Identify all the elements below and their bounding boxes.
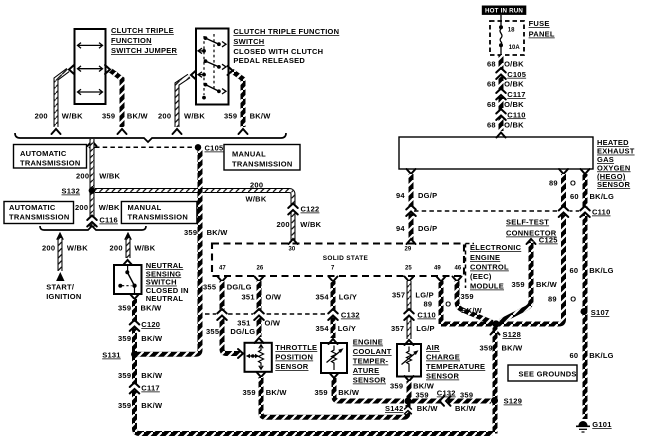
svg-text:W/BK: W/BK xyxy=(184,112,205,121)
svg-text:W/BK: W/BK xyxy=(99,203,120,212)
svg-text:CLUTCH TRIPLE: CLUTCH TRIPLE xyxy=(111,26,174,35)
svg-text:IGNITION: IGNITION xyxy=(46,292,81,301)
engine coolant temperature sensor box xyxy=(321,343,347,373)
label 68 O/BK row2 xyxy=(487,80,524,89)
TPS potentiometer symbol xyxy=(246,345,264,369)
svg-text:359: 359 xyxy=(243,388,256,397)
svg-text:SENSOR: SENSOR xyxy=(597,180,631,189)
svg-text:NEUTRAL: NEUTRAL xyxy=(146,294,184,303)
label heated exhaust gas oxygen sensor xyxy=(597,138,635,189)
dashed link to C105 xyxy=(95,146,194,148)
label 359 BK/W below C120 xyxy=(118,334,163,343)
node C105 xyxy=(195,144,201,150)
connector ACT top xyxy=(405,340,414,345)
svg-text:359: 359 xyxy=(416,391,429,400)
svg-text:(EEC): (EEC) xyxy=(470,272,492,281)
svg-text:DG/LG: DG/LG xyxy=(230,327,255,336)
label engine coolant temperature sensor xyxy=(353,338,392,385)
svg-text:BK/LG: BK/LG xyxy=(589,351,614,360)
HEGO sensor box xyxy=(399,137,593,169)
dashed connector line C110 xyxy=(414,210,588,212)
svg-text:TRANSMISSION: TRANSMISSION xyxy=(20,159,81,168)
clutch triple function switch box xyxy=(196,29,229,105)
svg-text:FUSE: FUSE xyxy=(529,19,550,28)
svg-text:200: 200 xyxy=(277,220,290,229)
label 60 BK/LG lower xyxy=(570,351,614,360)
svg-text:START/: START/ xyxy=(46,283,75,292)
connector C132 on 354 wire xyxy=(327,309,339,320)
connector jumper right xyxy=(105,65,110,74)
svg-text:SWITCH: SWITCH xyxy=(233,37,264,46)
svg-text:200: 200 xyxy=(158,112,171,121)
svg-text:O/BK: O/BK xyxy=(504,80,524,89)
air charge temperature sensor box xyxy=(397,344,421,377)
svg-text:46: 46 xyxy=(455,266,462,272)
connector pin7 xyxy=(329,277,338,282)
label 200 W/BK wire1 xyxy=(35,112,84,121)
connector on 60 wire at C110 line xyxy=(579,206,591,217)
label throttle position sensor xyxy=(275,343,317,371)
svg-text:C125: C125 xyxy=(539,236,558,245)
label electronic engine control module xyxy=(470,243,522,291)
svg-text:60: 60 xyxy=(570,351,579,360)
label 200 W/BK on S132 run xyxy=(246,181,267,204)
wire LG/P 357 pin25 to ACT top xyxy=(407,281,412,339)
svg-text:355: 355 xyxy=(203,283,216,292)
svg-text:THROTTLE: THROTTLE xyxy=(275,343,317,352)
label 200 W/BK xyxy=(76,172,121,181)
connector C105 fuse xyxy=(495,68,507,79)
svg-text:359: 359 xyxy=(118,401,131,410)
label 351 O/W lower xyxy=(237,319,281,328)
see grounds box xyxy=(508,365,577,381)
wire BK/W 359 S128 down through S129 to bottom bus xyxy=(493,326,498,434)
arrow start wire xyxy=(56,232,64,240)
svg-text:BK/W: BK/W xyxy=(413,382,435,391)
svg-text:BK/W: BK/W xyxy=(127,112,149,121)
svg-text:89: 89 xyxy=(424,300,433,309)
wire W/BK 200 jumper left xyxy=(56,70,68,127)
svg-text:TRANSMISSION: TRANSMISSION xyxy=(128,213,189,222)
splice S129 xyxy=(491,397,498,404)
label 200 W/BK start wire xyxy=(42,244,88,253)
svg-text:O/BK: O/BK xyxy=(504,121,524,130)
connector EEC pin30 xyxy=(289,239,298,244)
connector jumper left xyxy=(69,65,74,74)
nss switch symbol xyxy=(118,266,136,294)
splice S131 xyxy=(131,351,137,357)
connector pin47 xyxy=(218,277,227,282)
label clutch triple function switch xyxy=(233,27,339,65)
connector bus to W/BK wire xyxy=(88,141,97,146)
jumper arrow 3 xyxy=(78,89,103,95)
svg-text:BK/W: BK/W xyxy=(338,388,360,397)
wire BK/W 359 jumper right xyxy=(110,70,122,127)
label 60 BK/LG upper xyxy=(570,192,614,201)
EEC module label bracket xyxy=(466,244,475,289)
svg-text:C110: C110 xyxy=(507,110,526,119)
svg-text:200: 200 xyxy=(35,112,48,121)
wire BK/W 359 NSS to S131 to C117 to bottom bus xyxy=(135,299,494,434)
connector switch right xyxy=(228,66,233,75)
wire W/BK 200 to start/ignition xyxy=(58,238,63,271)
connector on S142 riser xyxy=(404,406,413,414)
wire O/BK 68 fuse to HEGO xyxy=(499,55,504,131)
wire BK/W 359 switch right xyxy=(232,71,243,127)
connector pin49 xyxy=(437,277,446,282)
neutral sensing switch box xyxy=(114,265,142,294)
label 359 BK/W ECT ground xyxy=(315,388,360,397)
connector TPS left entry xyxy=(238,349,243,358)
svg-text:357: 357 xyxy=(392,291,405,300)
bus brace top xyxy=(15,133,286,142)
label self-test connector xyxy=(506,218,557,238)
label 359 BK/W right of C132 xyxy=(455,391,477,414)
svg-text:BK/LG: BK/LG xyxy=(589,266,614,275)
svg-text:W/BK: W/BK xyxy=(62,112,83,121)
svg-text:200: 200 xyxy=(42,244,55,253)
connector C117 lower xyxy=(129,383,141,394)
svg-text:BK/W: BK/W xyxy=(455,404,477,413)
splice S142 xyxy=(405,398,412,405)
label 359 BK/W left of C132 xyxy=(416,391,439,414)
connector on 89 wire at C110 line xyxy=(558,206,570,217)
throttle position sensor box xyxy=(245,343,272,372)
svg-text:359: 359 xyxy=(224,112,237,121)
svg-text:PEDAL RELEASED: PEDAL RELEASED xyxy=(233,56,305,65)
connector wire3 at bus xyxy=(173,129,182,134)
svg-text:BK/W: BK/W xyxy=(250,112,272,121)
wire LG/Y 354 pin7 to ECT top xyxy=(331,281,336,338)
label 89 O pin49 xyxy=(424,300,452,309)
wire BK/W 359 C125 to S128 xyxy=(500,242,531,322)
svg-text:359: 359 xyxy=(315,388,328,397)
svg-text:DG/LG: DG/LG xyxy=(227,283,252,292)
dashed sensor connector line xyxy=(205,313,325,315)
svg-text:C116: C116 xyxy=(99,216,118,225)
svg-text:SENSOR: SENSOR xyxy=(426,372,460,381)
svg-text:MANUAL: MANUAL xyxy=(232,150,266,159)
label clutch triple function switch jumper xyxy=(111,26,178,55)
svg-text:BK/W: BK/W xyxy=(536,280,558,289)
svg-text:W/BK: W/BK xyxy=(134,244,155,253)
svg-text:G101: G101 xyxy=(592,420,611,429)
svg-text:C132: C132 xyxy=(341,311,360,320)
label 354 LG/Y upper xyxy=(316,293,358,302)
svg-text:C105: C105 xyxy=(205,144,224,153)
connector below S128 xyxy=(491,330,500,335)
svg-text:94: 94 xyxy=(396,224,405,233)
svg-text:68: 68 xyxy=(487,60,496,69)
wire BK/W 359 ACT ground to S142 xyxy=(407,381,412,401)
ground G101 xyxy=(576,421,590,432)
wire BK/W 359 C105 down to S131 xyxy=(137,149,200,354)
brace under C116 xyxy=(40,226,146,230)
svg-text:359: 359 xyxy=(512,280,525,289)
node diamond on W/BK wire xyxy=(88,144,95,151)
svg-text:SOLID STATE: SOLID STATE xyxy=(323,255,369,262)
svg-text:SENSOR: SENSOR xyxy=(353,376,387,385)
svg-text:C132: C132 xyxy=(437,389,456,398)
svg-text:359: 359 xyxy=(461,292,474,301)
svg-text:359: 359 xyxy=(390,382,403,391)
svg-text:SWITCH JUMPER: SWITCH JUMPER xyxy=(111,46,178,55)
manual transmission box 1 xyxy=(224,145,300,171)
label 357 LG/P lower xyxy=(391,324,435,333)
svg-text:200: 200 xyxy=(76,172,89,181)
connector wire4 at bus xyxy=(239,129,248,134)
svg-text:W/BK: W/BK xyxy=(300,220,321,229)
switch dashed line b xyxy=(213,34,215,89)
ECT thermistor symbol xyxy=(327,346,344,371)
connector C116 xyxy=(86,216,98,227)
svg-text:359: 359 xyxy=(460,391,473,400)
svg-text:BK/W: BK/W xyxy=(141,401,163,410)
label neutral sensing switch xyxy=(146,261,189,303)
connector TPS top xyxy=(255,338,264,343)
label 359 BK/W below S131 xyxy=(118,371,163,380)
automatic transmission box 1 xyxy=(14,145,87,169)
svg-text:LG/P: LG/P xyxy=(416,324,435,333)
svg-text:TEMPER-: TEMPER- xyxy=(353,357,389,366)
switch blade 2 xyxy=(204,59,226,69)
connector EEC pin29 xyxy=(407,239,416,244)
svg-text:C110: C110 xyxy=(592,208,611,217)
svg-text:DG/P: DG/P xyxy=(418,191,437,200)
label 200 W/BK at C122 xyxy=(277,220,322,229)
svg-text:W/BK: W/BK xyxy=(99,172,120,181)
jumper arrow 1 xyxy=(78,43,103,49)
svg-text:BK/W: BK/W xyxy=(266,388,288,397)
label 355 DG/LG lower xyxy=(206,327,255,336)
svg-text:BK/W: BK/W xyxy=(502,344,524,353)
label 68 O/BK row3 xyxy=(487,100,524,109)
wire BK/W 359 S142 to S129 xyxy=(410,399,491,404)
svg-text:SEE GROUNDS: SEE GROUNDS xyxy=(519,370,577,379)
svg-text:TEMPERATURE: TEMPERATURE xyxy=(426,362,485,371)
label 359 BK/W wire2 xyxy=(102,112,149,121)
svg-text:TRANSMISSION: TRANSMISSION xyxy=(9,213,70,222)
svg-text:BK/W: BK/W xyxy=(141,304,163,313)
ACT thermistor symbol xyxy=(402,347,419,373)
splice S132 xyxy=(89,187,95,193)
connector wire2 at bus xyxy=(118,129,127,134)
label 89 O lower right xyxy=(548,295,576,304)
wire BK/W 359 ECT ground to S142 xyxy=(334,378,404,401)
switch blade 3 xyxy=(204,83,226,94)
svg-text:359: 359 xyxy=(118,334,131,343)
svg-text:357: 357 xyxy=(391,324,404,333)
svg-text:SENSOR: SENSOR xyxy=(275,362,309,371)
label 354 LG/Y lower xyxy=(316,324,357,333)
wire O/W 351 pin26 to TPS top xyxy=(257,281,262,337)
connector switch left xyxy=(191,71,196,80)
wire BK/LG 60 HEGO to G101 xyxy=(583,174,588,419)
connector HEGO out right xyxy=(581,169,590,174)
svg-text:CLUTCH TRIPLE FUNCTION: CLUTCH TRIPLE FUNCTION xyxy=(233,27,339,36)
wire W/BK 200 to neutral sensing switch xyxy=(126,238,131,258)
svg-text:359: 359 xyxy=(118,371,131,380)
svg-text:W/BK: W/BK xyxy=(246,195,267,204)
svg-text:O: O xyxy=(445,300,451,309)
svg-text:60: 60 xyxy=(570,266,579,275)
fuse panel dashed box xyxy=(490,21,524,55)
hot in run box xyxy=(482,6,527,15)
svg-text:O: O xyxy=(570,295,576,304)
label START/IGNITION xyxy=(46,283,81,302)
connector ECT top xyxy=(329,339,338,344)
wire BK/W 359 TPS ground to S142 xyxy=(261,377,408,417)
label 60 BK/LG mid xyxy=(570,266,614,275)
svg-text:BK/W: BK/W xyxy=(141,371,163,380)
svg-text:C117: C117 xyxy=(507,90,526,99)
svg-text:BK/W: BK/W xyxy=(417,404,439,413)
svg-text:49: 49 xyxy=(434,266,441,272)
svg-text:C122: C122 xyxy=(301,205,320,214)
svg-text:O/BK: O/BK xyxy=(504,60,524,69)
splice dots top layer xyxy=(89,144,588,405)
svg-text:S142: S142 xyxy=(385,404,404,413)
svg-text:200: 200 xyxy=(110,244,123,253)
label 359 BK/W wire4 xyxy=(224,112,271,121)
svg-text:BK/W: BK/W xyxy=(207,228,229,237)
svg-text:CLOSED WITH CLUTCH: CLOSED WITH CLUTCH xyxy=(233,47,323,56)
svg-text:C105: C105 xyxy=(507,70,526,79)
svg-text:S131: S131 xyxy=(102,351,121,360)
connector ECT bottom xyxy=(330,373,339,378)
svg-text:POSITION: POSITION xyxy=(275,353,313,362)
svg-text:O/W: O/W xyxy=(265,319,281,328)
connector pin25 xyxy=(405,277,414,282)
svg-text:94: 94 xyxy=(396,191,405,200)
svg-text:CHARGE: CHARGE xyxy=(426,353,460,362)
svg-text:47: 47 xyxy=(219,266,226,272)
connector C120 xyxy=(129,320,141,331)
wire DG/LG 355 pin47 to TPS xyxy=(222,281,240,354)
svg-text:S132: S132 xyxy=(62,187,81,196)
arrow neutral switch wire xyxy=(124,232,132,240)
label 359 BK/W pin46 xyxy=(461,292,483,315)
connector C132 bottom xyxy=(440,395,451,407)
label 89 O upper xyxy=(549,179,576,188)
svg-text:FUNCTION: FUNCTION xyxy=(111,36,152,45)
connector HEGO out left xyxy=(407,169,416,174)
label 68 O/BK row1 xyxy=(487,60,524,69)
svg-text:AUTOMATIC: AUTOMATIC xyxy=(20,149,67,158)
label air charge temperature sensor xyxy=(426,343,485,381)
connector pin26 xyxy=(255,277,264,282)
svg-text:89: 89 xyxy=(549,179,558,188)
connector on 94 wire at C110 line xyxy=(405,205,417,216)
splice S128 xyxy=(493,321,500,328)
wire O 89 HEGO down to S128 bus xyxy=(441,174,564,324)
svg-text:DG/P: DG/P xyxy=(418,224,437,233)
label fuse panel xyxy=(529,19,555,39)
label 200 W/BK at C116 xyxy=(75,203,120,212)
svg-text:BK/W: BK/W xyxy=(141,334,163,343)
wire W/BK 200 bus to S132 to C116 xyxy=(90,139,95,228)
switch left arrow 2 xyxy=(198,72,206,77)
wire O 89 pin49 to bus xyxy=(439,281,444,324)
connector C125 xyxy=(527,239,536,244)
svg-text:C117: C117 xyxy=(141,384,160,393)
svg-text:HOT IN RUN: HOT IN RUN xyxy=(485,8,523,15)
svg-text:30: 30 xyxy=(289,247,296,253)
svg-text:18: 18 xyxy=(508,28,515,34)
label 359 BK/W below S128 xyxy=(480,344,524,353)
svg-text:359: 359 xyxy=(480,344,493,353)
svg-text:AIR: AIR xyxy=(426,343,440,352)
svg-text:29: 29 xyxy=(405,247,412,253)
connector at NSS bottom xyxy=(130,294,139,299)
splice S107 xyxy=(581,308,588,315)
svg-text:C110: C110 xyxy=(417,311,436,320)
svg-text:S128: S128 xyxy=(503,330,522,339)
connector C110 fuse xyxy=(495,109,507,120)
svg-text:355: 355 xyxy=(206,327,219,336)
jumper arrow 2 xyxy=(78,66,103,72)
connector C122 xyxy=(287,204,299,215)
svg-text:O/W: O/W xyxy=(266,293,282,302)
wire W/BK 200 switch left xyxy=(177,76,189,127)
svg-text:ENGINE: ENGINE xyxy=(353,338,383,347)
label 359 BK/W on C105 wire xyxy=(184,228,228,237)
svg-text:BK/W: BK/W xyxy=(461,306,483,315)
connector C117 fuse xyxy=(495,89,507,100)
svg-text:89: 89 xyxy=(548,295,557,304)
svg-text:PANEL: PANEL xyxy=(529,30,555,39)
connector C110 on 357 wire xyxy=(403,309,415,320)
svg-text:BK/LG: BK/LG xyxy=(590,192,615,201)
svg-text:C120: C120 xyxy=(141,320,160,329)
svg-text:354: 354 xyxy=(316,324,330,333)
svg-text:25: 25 xyxy=(405,266,412,272)
switch left arrow 1 xyxy=(198,48,206,53)
svg-text:LG/Y: LG/Y xyxy=(338,324,357,333)
svg-text:68: 68 xyxy=(487,80,496,89)
svg-text:200: 200 xyxy=(75,203,88,212)
label 359 BK/W ACT ground xyxy=(390,382,435,391)
svg-text:26: 26 xyxy=(257,266,264,272)
connector at NSS top xyxy=(123,260,132,265)
svg-text:S107: S107 xyxy=(591,308,610,317)
svg-text:LG/Y: LG/Y xyxy=(339,293,358,302)
label 94 DG/P upper xyxy=(396,191,437,200)
svg-text:359: 359 xyxy=(184,228,197,237)
connector HEGO out mid xyxy=(559,169,568,174)
svg-text:O: O xyxy=(570,179,576,188)
connector on 355 wire xyxy=(216,309,228,320)
svg-text:10A: 10A xyxy=(509,45,521,51)
label 359 BK/W TPS ground xyxy=(243,388,288,397)
automatic transmission box 2 xyxy=(4,202,74,224)
svg-text:351: 351 xyxy=(242,293,255,302)
label 200 W/BK nss wire xyxy=(110,244,156,253)
svg-text:S129: S129 xyxy=(504,397,523,406)
svg-text:MANUAL: MANUAL xyxy=(128,203,162,212)
connector HEGO top xyxy=(497,133,506,138)
svg-text:359: 359 xyxy=(118,304,131,313)
svg-text:O/BK: O/BK xyxy=(504,100,524,109)
connector ACT bottom xyxy=(405,376,414,381)
label 351 O/W upper xyxy=(242,293,282,302)
EEC solid state dashed box xyxy=(212,244,464,277)
label 355 DG/LG upper xyxy=(203,283,252,292)
svg-text:68: 68 xyxy=(487,100,496,109)
wire DG/P 94 HEGO to EEC pin29 xyxy=(409,174,414,240)
svg-text:COOLANT: COOLANT xyxy=(353,347,392,356)
svg-text:ELECTRONIC: ELECTRONIC xyxy=(470,243,522,252)
